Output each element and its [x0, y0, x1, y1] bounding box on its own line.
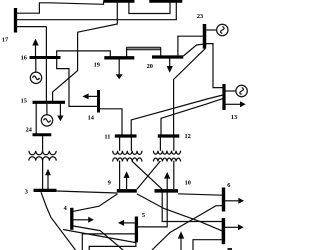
- svg-text:14: 14: [88, 114, 95, 121]
- svg-text:15: 15: [21, 97, 27, 104]
- svg-text:11: 11: [104, 133, 110, 140]
- svg-text:20: 20: [147, 63, 153, 70]
- svg-text:9: 9: [108, 179, 111, 186]
- svg-text:12: 12: [185, 133, 191, 140]
- svg-text:17: 17: [2, 36, 8, 43]
- svg-text:5: 5: [142, 212, 145, 219]
- svg-text:13: 13: [231, 114, 237, 121]
- svg-text:10: 10: [185, 180, 191, 187]
- svg-text:24: 24: [26, 127, 33, 134]
- svg-text:6: 6: [227, 182, 230, 189]
- svg-text:19: 19: [94, 62, 100, 69]
- svg-text:23: 23: [197, 13, 203, 20]
- svg-text:16: 16: [21, 54, 27, 61]
- svg-text:3: 3: [25, 188, 28, 195]
